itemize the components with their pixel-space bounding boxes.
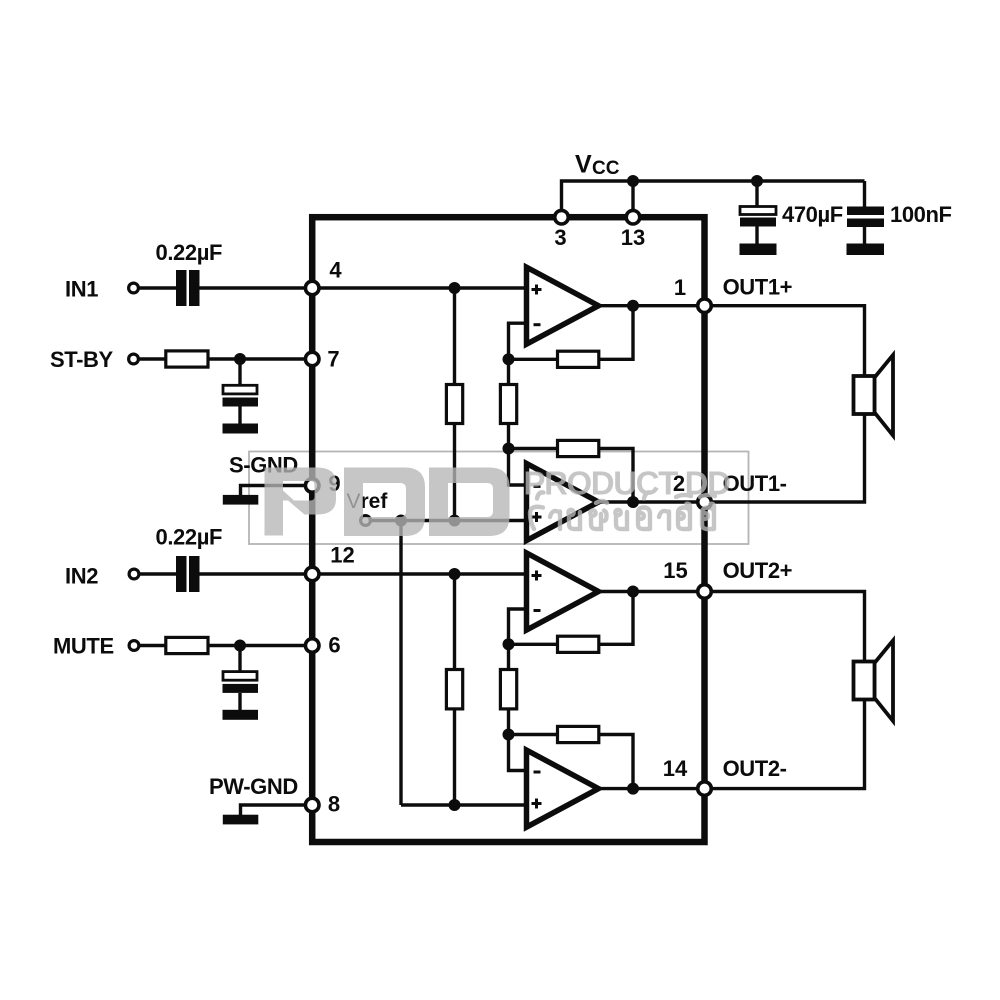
- svg-text:CC: CC: [592, 158, 620, 179]
- node dot op-amp B feedback: [503, 443, 515, 455]
- capacitor C4 100nF: [847, 207, 884, 245]
- resistor R5 (feedback op-amp A): [558, 351, 599, 367]
- wire feedback R5 right to output: [599, 306, 633, 360]
- speaker LS1: [854, 355, 894, 436]
- node dot ST-BY filter tap: [234, 353, 246, 365]
- svg-text:ST-BY: ST-BY: [50, 347, 114, 372]
- pin 12: [305, 567, 319, 581]
- node VCC junction dot at pin13 riser: [627, 175, 639, 187]
- wire IN2 to C2: [139, 572, 176, 575]
- wire chain R gain ch1: [509, 359, 527, 485]
- svg-text:1: 1: [674, 275, 686, 300]
- IN1 terminal: [129, 283, 139, 293]
- wire op-amp C inverting input: [509, 609, 527, 644]
- ground below C5: [223, 424, 259, 434]
- wire R1 to pin 7: [208, 357, 312, 360]
- svg-text:MUTE: MUTE: [53, 634, 114, 659]
- wire feedback R10 right to output: [599, 735, 633, 789]
- watermark letter P: [265, 468, 337, 536]
- wire MUTE to R2: [139, 644, 166, 647]
- wire IN1 to C1: [139, 286, 177, 289]
- svg-text:7: 7: [327, 347, 339, 372]
- pin 3: [555, 210, 569, 224]
- svg-text:ref: ref: [361, 490, 389, 513]
- svg-text:OUT2+: OUT2+: [723, 558, 793, 583]
- wire Vref rail corner to op-amp D + input: [401, 803, 527, 806]
- ground below C3: [740, 244, 777, 256]
- pin 9: [305, 479, 319, 493]
- node VCC junction dot at 470uF: [751, 175, 763, 187]
- ground below C4: [847, 244, 885, 256]
- node dot op-amp D output: [627, 783, 639, 795]
- wire R2 to pin 6: [208, 644, 312, 647]
- wire feedback R5 left: [509, 358, 558, 361]
- pin 13: [626, 210, 640, 224]
- resistor R9 (gain chain ch2): [500, 670, 516, 709]
- svg-text:3: 3: [554, 225, 566, 250]
- VCC label: [575, 151, 620, 180]
- node dot MUTE filter tap: [234, 640, 246, 652]
- node dot op-amp A output: [627, 300, 639, 312]
- svg-text:6: 6: [328, 633, 340, 658]
- node dot Vref riser: [395, 515, 407, 527]
- ground below C6: [223, 710, 259, 720]
- resistor R10 (feedback op-amp D): [558, 726, 599, 742]
- wire feedback R7 right to output: [599, 449, 633, 503]
- op-amp C (OUT2+): [527, 553, 599, 630]
- wire pin 4 to op-amp A + input: [312, 286, 527, 289]
- wire op-amp A inverting input: [509, 323, 527, 359]
- pin 1: [698, 299, 712, 313]
- op-amp D (OUT2-): [527, 750, 599, 827]
- svg-text:8: 8: [328, 792, 340, 817]
- svg-text:IN2: IN2: [65, 564, 98, 589]
- svg-text:0.22µF: 0.22µF: [156, 525, 223, 550]
- Vref terminal: [361, 516, 371, 526]
- wire pin 15 to speaker LS2: [705, 592, 865, 662]
- node dot bias chain bottom ch2: [449, 799, 461, 811]
- ground S-GND: [223, 495, 258, 505]
- wire Vref to op-amp B + input: [370, 519, 526, 522]
- watermark frame: [249, 452, 749, 545]
- wire C1 to pin 4: [200, 286, 313, 289]
- wire op-amp B output to pin 2: [599, 500, 705, 503]
- op-amp A (OUT1+): [527, 267, 599, 344]
- capacitor C5 (ST-BY filter): [223, 359, 259, 424]
- pin 15: [698, 585, 712, 599]
- pin 4: [305, 281, 319, 295]
- svg-text:OUT1+: OUT1+: [723, 275, 793, 300]
- Vref label: [347, 490, 389, 513]
- ST-BY terminal: [129, 354, 139, 364]
- node dot op-amp B output: [627, 496, 639, 508]
- resistor R3 (ch1 bias upper): [446, 385, 462, 424]
- pin 6: [305, 639, 319, 653]
- wire ST-BY to R1: [139, 357, 166, 360]
- node dot bias chain bottom ch1: [449, 515, 461, 527]
- wire feedback R7 left: [509, 447, 558, 450]
- watermark letter D2: [429, 468, 510, 537]
- svg-text:IN1: IN1: [65, 277, 98, 302]
- svg-text:12: 12: [330, 543, 354, 568]
- wire chain R bias ch1 upper: [453, 288, 456, 521]
- resistor R6 (gain chain ch1): [500, 385, 516, 424]
- wire feedback R8 right to output: [599, 592, 633, 645]
- node dot input divider tap ch2: [449, 568, 461, 580]
- wire pin 14 to speaker LS2: [705, 700, 865, 789]
- resistor R1 (ST-BY): [166, 351, 208, 367]
- op-amp B (OUT1-): [527, 464, 599, 541]
- wire chain R gain ch2: [509, 644, 527, 770]
- svg-text:100nF: 100nF: [890, 202, 952, 227]
- resistor R2 (MUTE): [166, 637, 208, 653]
- wire feedback R8 left: [509, 643, 558, 646]
- wire chain R bias ch2 lower: [453, 574, 456, 805]
- svg-text:OUT2-: OUT2-: [723, 756, 787, 781]
- node dot input divider tap ch1: [449, 282, 461, 294]
- svg-text:14: 14: [663, 756, 688, 781]
- svg-text:13: 13: [621, 225, 645, 250]
- ground PW-GND: [223, 815, 258, 825]
- wire pin 8 to PW-GND: [241, 805, 306, 815]
- speaker LS2: [854, 641, 894, 722]
- wire pin 2 to speaker LS1: [705, 414, 865, 502]
- wire op-amp C output to pin 15: [599, 590, 705, 593]
- IC body U1: [312, 217, 704, 842]
- resistor R8 (feedback op-amp C): [558, 636, 599, 652]
- capacitor C1 0.22µF (IN1 coupling): [176, 270, 200, 306]
- wire feedback R10 left: [509, 733, 558, 736]
- watermark thai text: [530, 492, 715, 529]
- svg-text:15: 15: [663, 558, 687, 583]
- wire pin 9 to S-GND: [241, 486, 306, 496]
- wire pin 1 to speaker LS1: [705, 306, 865, 376]
- node dot op-amp A feedback: [503, 353, 515, 365]
- wire op-amp A output to pin 1: [599, 304, 705, 307]
- node dot op-amp C feedback: [503, 638, 515, 650]
- IN2 terminal: [129, 569, 139, 579]
- svg-text:4: 4: [329, 258, 342, 283]
- pin 2: [698, 495, 712, 509]
- resistor R7 (feedback op-amp B): [558, 440, 599, 456]
- resistor R4 (ch2 bias lower): [446, 670, 462, 709]
- VCC net wire: [562, 181, 865, 217]
- wire pin 12 to op-amp C + input: [312, 572, 527, 575]
- wire op-amp D output to pin 14: [599, 787, 705, 790]
- MUTE terminal: [129, 641, 139, 651]
- node dot op-amp C output: [627, 586, 639, 598]
- capacitor C3 470µF: [740, 207, 776, 245]
- capacitor C2 0.22µF (IN2 coupling): [176, 556, 200, 592]
- svg-text:470µF: 470µF: [782, 202, 843, 227]
- pin 8: [305, 798, 319, 812]
- svg-text:PW-GND: PW-GND: [209, 774, 298, 799]
- wire C2 to pin 12: [200, 572, 313, 575]
- svg-text:0.22µF: 0.22µF: [156, 240, 223, 265]
- node dot op-amp D feedback: [503, 729, 515, 741]
- pin 7: [305, 352, 319, 366]
- watermark letter D1: [344, 468, 425, 537]
- svg-text:V: V: [575, 151, 592, 179]
- wire Vref down to pin 8 rail: [399, 521, 402, 806]
- pin 14: [698, 782, 712, 796]
- capacitor C6 (MUTE filter): [223, 646, 259, 711]
- svg-text:OUT1-: OUT1-: [723, 471, 787, 496]
